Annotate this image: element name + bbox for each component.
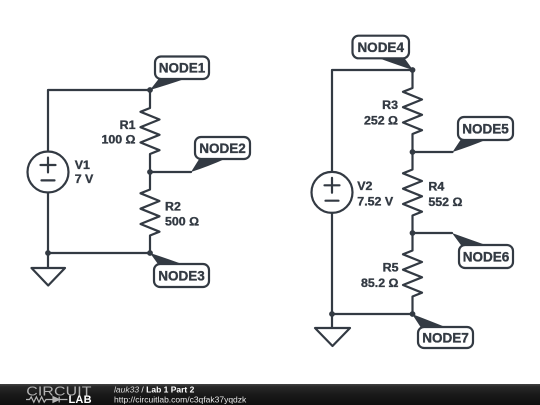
wire R1/R2 junction to NODE2 flag xyxy=(150,171,191,173)
resistor R1 xyxy=(141,90,160,172)
voltage source V1 xyxy=(28,152,69,193)
ground (right circuit) xyxy=(315,314,350,346)
label: R3 value 252 ohm xyxy=(364,113,398,127)
resistor R3 xyxy=(403,70,422,152)
svg-text:7.52 V: 7.52 V xyxy=(357,195,394,209)
svg-text:500 Ω: 500 Ω xyxy=(165,215,199,229)
svg-text:85.2 Ω: 85.2 Ω xyxy=(361,276,399,290)
ground (left circuit) xyxy=(32,253,66,286)
svg-text:NODE1: NODE1 xyxy=(159,61,206,76)
footer title text xyxy=(114,385,247,405)
svg-text:NODE5: NODE5 xyxy=(462,122,509,137)
resistor R5 xyxy=(403,233,422,314)
svg-text:R5: R5 xyxy=(383,261,399,275)
voltage source V2 xyxy=(312,172,353,213)
wire V2- to NODE7 (bottom rail, right circuit) xyxy=(332,213,413,314)
footer bar xyxy=(0,384,540,405)
node flag NODE1 xyxy=(150,57,209,91)
svg-text:NODE3: NODE3 xyxy=(158,269,205,284)
wire R3/R4 junction to NODE5 flag xyxy=(413,151,453,153)
svg-text:NODE6: NODE6 xyxy=(463,250,510,265)
svg-text:R4: R4 xyxy=(428,180,444,194)
svg-text:NODE7: NODE7 xyxy=(422,331,469,346)
svg-text:R3: R3 xyxy=(382,98,398,112)
resistor R2 xyxy=(141,172,160,253)
label: R3 designator xyxy=(382,98,398,112)
node flag NODE6 xyxy=(452,233,513,268)
label: V2 value 7.52 V xyxy=(357,195,394,209)
label: R5 value 85.2 ohm xyxy=(361,276,399,290)
node flag NODE7 xyxy=(412,314,473,348)
wire V2+ to NODE4 (top rail, right circuit) xyxy=(332,70,413,172)
svg-text:552 Ω: 552 Ω xyxy=(428,195,462,209)
wire V1+ to NODE1 (top rail, left circuit) xyxy=(48,90,150,152)
CircuitLab logo resistor-diode glyph xyxy=(26,397,68,403)
svg-text:7 V: 7 V xyxy=(75,172,94,186)
svg-text:NODE4: NODE4 xyxy=(357,40,404,55)
svg-text:R1: R1 xyxy=(120,118,136,132)
wire R4/R5 junction to NODE6 flag xyxy=(413,232,453,234)
junction: net NODE7 at ground xyxy=(329,311,335,317)
svg-text:lauk33 / Lab 1 Part 2: lauk33 / Lab 1 Part 2 xyxy=(114,385,195,395)
svg-text:LAB: LAB xyxy=(69,394,92,405)
label: R5 designator xyxy=(383,261,399,275)
svg-text:V2: V2 xyxy=(357,179,372,193)
junction: net NODE3 (R2 bottom) xyxy=(147,250,153,256)
svg-text:252 Ω: 252 Ω xyxy=(364,113,398,127)
node flag NODE5 xyxy=(453,117,514,152)
svg-text:V1: V1 xyxy=(75,158,90,172)
junction: net NODE4 xyxy=(410,67,416,73)
junction: net NODE1 xyxy=(147,87,153,93)
node flag NODE4 xyxy=(353,36,414,70)
svg-text:NODE2: NODE2 xyxy=(199,141,246,156)
svg-text:100 Ω: 100 Ω xyxy=(101,133,135,147)
svg-text:R2: R2 xyxy=(165,200,181,214)
junction: net NODE7 (R5 bottom) xyxy=(410,311,416,317)
label: R2 value 500 ohm xyxy=(165,215,199,229)
label: R1 designator xyxy=(120,118,136,132)
junction: net NODE3 at ground xyxy=(45,250,51,256)
CircuitLab logo wordmark xyxy=(26,385,91,405)
junction: net NODE5 (R3/R4) xyxy=(410,149,416,155)
resistor R4 xyxy=(403,152,422,233)
svg-text:http://circuitlab.com/c3qfak37: http://circuitlab.com/c3qfak37yqdzk xyxy=(114,394,247,404)
wire V1- to NODE3 (bottom rail, left circuit) xyxy=(48,193,150,254)
label: V2 designator xyxy=(357,179,372,193)
label: R4 value 552 ohm xyxy=(428,195,462,209)
label: R4 designator xyxy=(428,180,444,194)
label: V1 value 7 V xyxy=(75,172,94,186)
label: R1 value 100 ohm xyxy=(101,133,135,147)
node flag NODE3 xyxy=(150,253,209,287)
junction: net NODE6 (R4/R5) xyxy=(410,230,416,236)
label: V1 designator xyxy=(75,158,90,172)
junction: net NODE2 (R1/R2) xyxy=(147,169,153,175)
label: R2 designator xyxy=(165,200,181,214)
node flag NODE2 xyxy=(191,137,250,172)
